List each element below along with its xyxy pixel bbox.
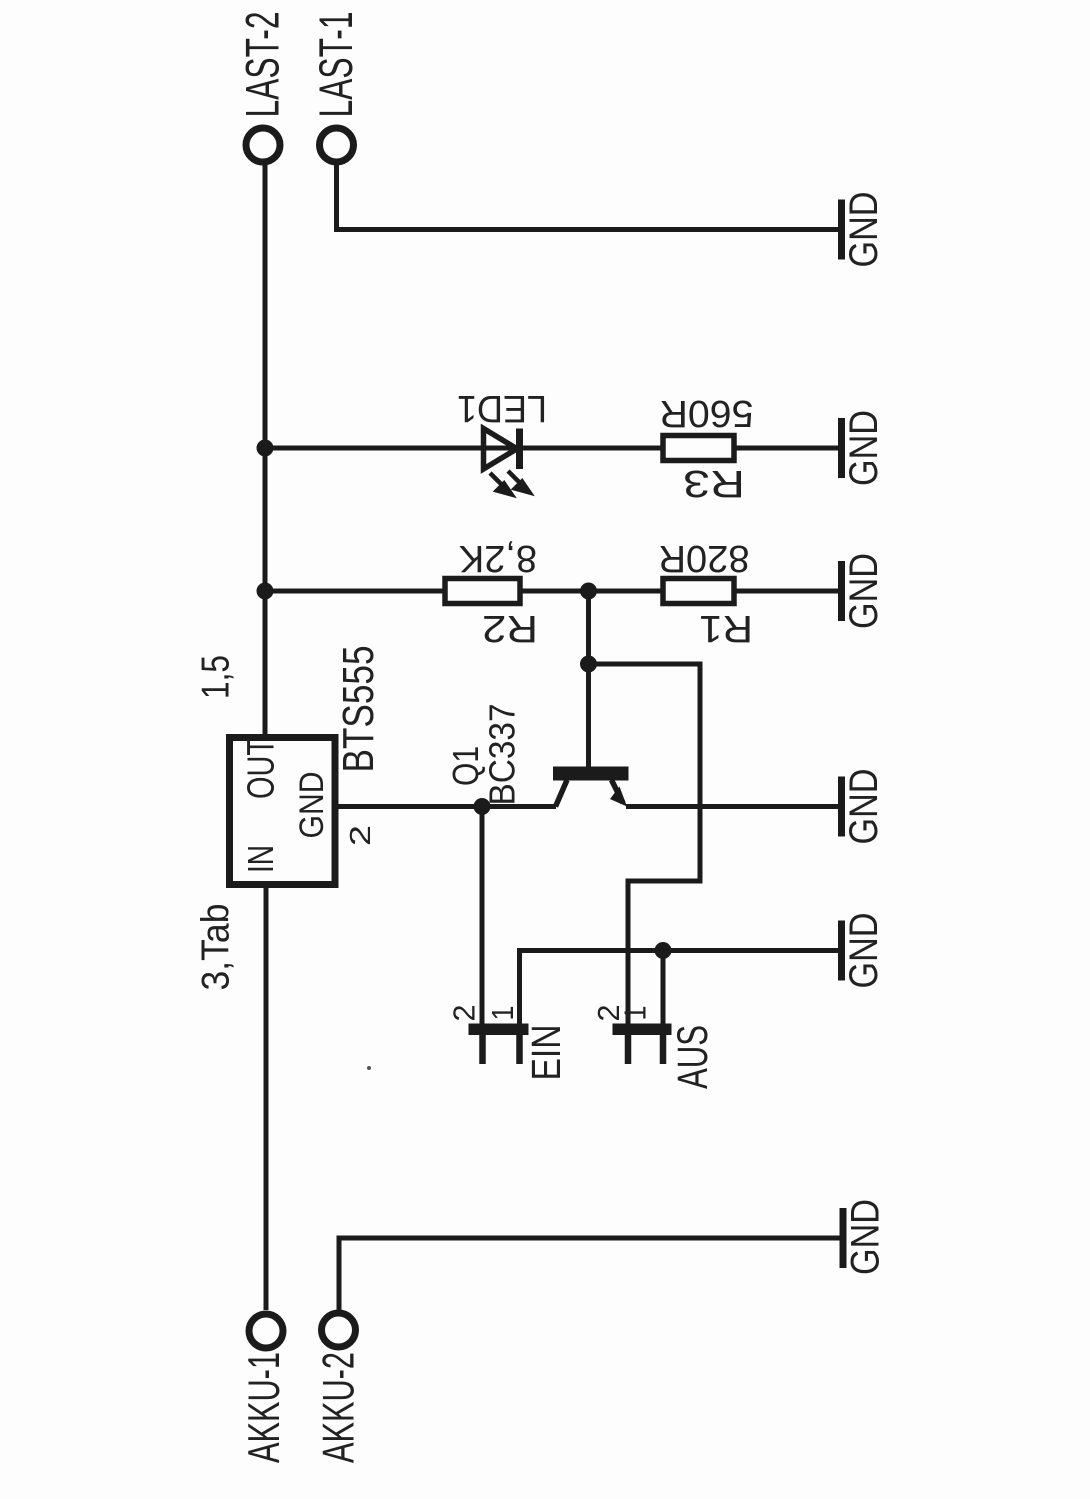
- svg-text:AKKU-2: AKKU-2: [315, 1352, 364, 1463]
- svg-text:LAST-2: LAST-2: [236, 12, 289, 118]
- svg-text:2: 2: [447, 1005, 482, 1022]
- svg-text:R2: R2: [482, 608, 538, 651]
- svg-text:EIN: EIN: [523, 1025, 569, 1081]
- svg-text:AKKU-1: AKKU-1: [240, 1352, 289, 1463]
- svg-text:GND: GND: [840, 553, 885, 629]
- svg-text:GND: GND: [842, 1199, 887, 1275]
- svg-text:OUT: OUT: [241, 738, 283, 799]
- svg-text:1: 1: [485, 1006, 520, 1021]
- svg-text:3,Tab: 3,Tab: [193, 904, 237, 991]
- svg-text:AUS: AUS: [669, 1025, 716, 1089]
- svg-text:GND: GND: [293, 772, 331, 839]
- svg-text:R3: R3: [683, 463, 745, 506]
- svg-text:IN: IN: [241, 845, 282, 873]
- svg-text:BC337: BC337: [483, 704, 523, 806]
- svg-text:R1: R1: [699, 608, 753, 651]
- svg-text:820R: 820R: [659, 538, 750, 581]
- svg-text:BTS555: BTS555: [335, 646, 383, 773]
- svg-text:GND: GND: [840, 192, 885, 268]
- svg-text:2: 2: [345, 825, 377, 846]
- svg-text:GND: GND: [840, 410, 885, 486]
- svg-text:LED1: LED1: [457, 388, 547, 431]
- svg-text:8,2K: 8,2K: [459, 538, 537, 581]
- svg-text:560R: 560R: [660, 393, 754, 436]
- svg-text:1,5: 1,5: [193, 655, 237, 699]
- svg-text:LAST-1: LAST-1: [309, 12, 362, 118]
- svg-text:Q1: Q1: [447, 746, 487, 786]
- svg-text:1: 1: [618, 1006, 653, 1021]
- svg-text:GND: GND: [840, 769, 885, 845]
- svg-text:GND: GND: [840, 913, 885, 989]
